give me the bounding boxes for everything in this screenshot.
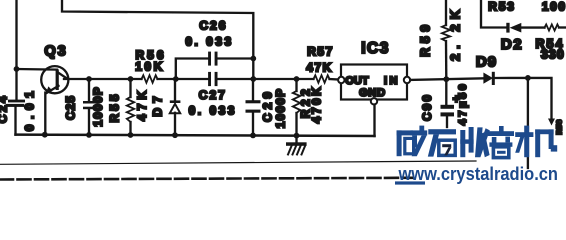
node R22 top <box>294 76 300 82</box>
svg-text:GND: GND <box>359 87 386 99</box>
svg-text:R58: R58 <box>555 119 564 134</box>
svg-text:47K: 47K <box>306 60 333 74</box>
svg-text:1000P: 1000P <box>91 86 105 127</box>
wire: base node down to C24 <box>15 69 17 100</box>
svg-text:C24: C24 <box>0 94 10 124</box>
wire: base of Q3 <box>17 68 58 71</box>
node C25 top <box>86 76 92 82</box>
svg-text:10K: 10K <box>135 59 165 73</box>
node bus C29 <box>250 133 256 139</box>
resistor R57 <box>314 75 330 83</box>
wire: IC3 GND riser <box>373 105 375 137</box>
border line (dashed) <box>0 178 413 180</box>
node C29 top <box>250 76 256 82</box>
svg-text:0.01: 0.01 <box>23 86 37 131</box>
wire: left vertical from top edge to base node <box>15 0 17 69</box>
transistor Q3 <box>41 66 68 94</box>
ground <box>286 136 307 155</box>
svg-text:C25: C25 <box>64 95 78 120</box>
wire: Q3 emitter down to bus <box>44 93 46 135</box>
capacitor C27 <box>208 72 217 86</box>
wire: drop behind watermark <box>527 78 529 168</box>
node R55 top <box>128 76 134 82</box>
svg-text:IC3: IC3 <box>361 40 390 57</box>
watermark underline <box>395 181 425 184</box>
glyph shi (logo square with 7) <box>428 129 456 156</box>
svg-text:C29: C29 <box>261 88 275 122</box>
wire: IC3 IN to R59/C90 node and D9 <box>410 78 483 80</box>
glyph yin <box>488 126 514 158</box>
wire: main rail from Q3 collector <box>64 78 142 80</box>
svg-text:1000P: 1000P <box>274 88 288 129</box>
wire: ground bus <box>16 135 375 136</box>
wire: main rail C27 to R57 <box>218 78 314 80</box>
svg-text:2. 2K: 2. 2K <box>448 5 463 61</box>
wire: top rail <box>62 0 253 79</box>
svg-text:D7: D7 <box>151 91 165 116</box>
wire: D2 to R54 <box>521 26 544 28</box>
node bus R55 <box>128 132 134 138</box>
resistor R54 <box>545 24 560 30</box>
svg-text:D2: D2 <box>501 36 523 53</box>
svg-text:C90: C90 <box>420 93 434 121</box>
svg-text:470K: 470K <box>310 85 324 124</box>
op-amp U1: IC3 regulator box <box>338 65 410 105</box>
capacitor C26 <box>208 52 253 66</box>
wire: D9 to right corner <box>495 77 528 79</box>
svg-text:C26: C26 <box>199 18 227 32</box>
svg-text:www.crystalradio.cn: www.crystalradio.cn <box>398 164 558 184</box>
node base junction <box>14 66 20 72</box>
wire: right corner down <box>528 78 552 119</box>
border line (solid) <box>0 161 476 164</box>
resistor R22 <box>293 79 300 136</box>
svg-text:C27: C27 <box>199 88 227 102</box>
capacitor C29 <box>246 79 261 135</box>
capacitor C24 <box>6 100 26 135</box>
svg-text:47μ50: 47μ50 <box>457 82 469 126</box>
node bus D7 <box>172 132 178 138</box>
diode D2 <box>506 23 521 33</box>
resistor R55 <box>127 79 134 135</box>
glyph ji <box>515 126 557 158</box>
node right drop <box>525 75 531 81</box>
watermark logo group <box>395 126 558 185</box>
resistor R56 <box>142 75 158 83</box>
svg-text:D9: D9 <box>476 54 497 71</box>
capacitor C25 <box>83 79 96 135</box>
wire: R57 to IC3 OUT pin <box>330 78 339 81</box>
wire: R54 to right edge <box>559 26 566 28</box>
glyph kuang <box>397 126 428 157</box>
svg-text:R55: R55 <box>107 91 121 122</box>
svg-text:R59: R59 <box>419 20 433 56</box>
node bus C24 <box>42 132 48 138</box>
resistor R59 <box>442 0 450 79</box>
wire: main rail R56 to C27 <box>158 78 209 80</box>
node C26 right <box>250 56 256 62</box>
resistor R58 lead arrow <box>548 119 555 126</box>
diode D7 <box>170 79 181 135</box>
wire: top right feed to D2 <box>481 0 506 28</box>
svg-text:R57: R57 <box>307 45 334 59</box>
svg-text:IN: IN <box>384 75 400 87</box>
capacitor C90 <box>441 79 455 127</box>
wire: C26 branch stub <box>176 59 209 80</box>
svg-text:100: 100 <box>542 0 566 14</box>
node D7 / C26 branch <box>173 76 179 82</box>
svg-text:Q3: Q3 <box>44 44 67 60</box>
svg-text:0. 033: 0. 033 <box>185 35 233 49</box>
svg-text:47K: 47K <box>135 87 149 121</box>
svg-text:OUT: OUT <box>345 75 369 87</box>
svg-text:R53: R53 <box>488 0 515 14</box>
glyph shou <box>460 127 490 157</box>
svg-text:0. 033: 0. 033 <box>189 104 237 118</box>
diode D9 <box>483 72 494 85</box>
svg-text:330: 330 <box>541 47 565 61</box>
node R59/C90 <box>443 76 449 82</box>
node bus C25 <box>86 132 92 138</box>
node bus R22/ground <box>294 133 300 139</box>
